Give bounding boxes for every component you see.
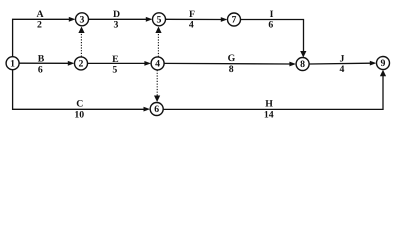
dummy wire 4 to 5 (dashed) [157,33,159,57]
svg-text:5: 5 [157,15,162,26]
svg-text:D: D [113,9,120,20]
arrowhead H into node 9 (up) [380,70,386,77]
svg-text:14: 14 [264,109,274,120]
svg-text:G: G [228,53,236,64]
dummy wire 2 to 3 (dashed) [80,33,82,57]
wire J (8 to 9) [309,62,371,65]
svg-text:A: A [36,9,43,20]
svg-text:E: E [112,54,119,65]
node 4 [151,57,164,70]
arrowhead C into node 6 [144,107,151,112]
arrowhead A into node 3 [69,17,76,22]
svg-text:C: C [76,99,83,110]
wire A path (1 up and right to 3) [13,19,70,56]
node 9 [377,57,390,70]
svg-text:H: H [265,99,273,110]
svg-text:4: 4 [189,20,194,31]
svg-text:3: 3 [80,15,85,26]
svg-text:J: J [340,54,345,65]
wire B (1 to 2) [19,62,69,64]
wire E (2 to 4) [88,62,146,64]
arrowhead dummy into node 5 (up) [155,27,161,34]
wire F (5 to 7) [166,18,222,20]
wire C path (1 down and right to 6) [13,70,145,110]
node 8 [296,58,309,71]
svg-text:9: 9 [381,58,386,69]
svg-text:2: 2 [79,59,84,70]
arrowhead I into node 8 (down) [300,51,306,58]
svg-text:4: 4 [155,59,160,70]
wire D (3 to 5) [89,18,147,20]
dummy wire 4 to 6 (dashed) [156,70,158,96]
svg-text:7: 7 [232,15,237,26]
svg-text:B: B [38,54,45,65]
svg-text:5: 5 [112,64,117,75]
arrowhead G into node 8 [289,62,296,67]
arrowhead B into node 2 [68,61,75,66]
svg-text:6: 6 [38,64,43,75]
svg-text:8: 8 [229,64,234,75]
node 6 [150,103,163,116]
node 3 [76,13,89,26]
svg-text:6: 6 [154,104,159,115]
wire H path (6 right then up to 9) [163,76,383,110]
arrowhead E into node 4 [144,61,151,66]
svg-text:8: 8 [300,59,305,70]
arrowhead F into node 7 [221,17,228,22]
svg-text:I: I [270,9,274,20]
svg-text:4: 4 [340,64,345,75]
arrowhead D into node 5 [146,17,153,22]
svg-text:10: 10 [74,109,84,120]
svg-text:3: 3 [113,19,118,30]
svg-text:2: 2 [37,19,42,30]
arrowhead dummy into node 6 (down) [154,96,160,103]
wire I path (7 right then down to 8) [241,20,304,53]
arrowhead J into node 9 [370,61,377,66]
node 5 [153,13,166,26]
node 1 [6,57,19,70]
svg-text:F: F [189,9,195,20]
svg-text:1: 1 [10,58,15,69]
node 7 [228,13,241,26]
arrowhead dummy into node 3 (up) [78,27,84,34]
wire G (4 to 8) [164,62,290,65]
node 2 [75,57,88,70]
svg-text:6: 6 [268,20,273,31]
